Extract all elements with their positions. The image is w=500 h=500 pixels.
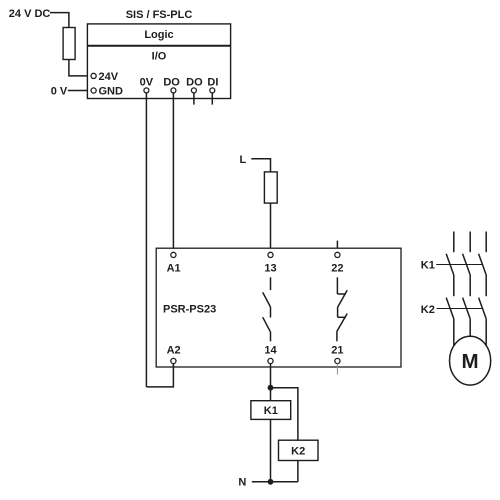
wire mid lead 3 — [485, 275, 487, 296]
svg-text:0V: 0V — [140, 77, 154, 89]
wire stub DI — [211, 93, 213, 105]
contact NC 22-21 lower — [337, 307, 347, 341]
Logic section — [87, 29, 230, 46]
wire phase lead 2 — [469, 232, 471, 253]
contactor K1 pole 1 — [446, 254, 454, 275]
fuse F2 — [264, 172, 277, 203]
wire fuse F1 to terminal 24V — [69, 60, 91, 76]
svg-text:24 V DC: 24 V DC — [9, 8, 51, 20]
wire 14 down to coil K1 — [270, 364, 272, 401]
wire A2 to 0V return — [146, 364, 173, 387]
svg-text:A2: A2 — [167, 345, 181, 357]
svg-text:DO: DO — [186, 77, 203, 89]
contact NO 13-14 upper — [263, 277, 271, 307]
wire 0V down to A2 return — [145, 93, 147, 387]
wire fuse F2 to terminal 13 — [270, 203, 272, 252]
contactor K1 pole 3 — [479, 254, 487, 275]
svg-text:Logic: Logic — [144, 29, 173, 41]
wire 0V to terminal GND — [68, 90, 91, 92]
wire mid lead 1 — [453, 275, 455, 296]
terminal A1 — [167, 252, 181, 274]
wire coil K1 to N — [270, 419, 272, 481]
terminal GND — [91, 85, 123, 97]
wire 24VDC to fuse F1 — [50, 13, 69, 28]
contactor K1 pole 2 — [463, 254, 471, 275]
contact NC 22-21 upper — [337, 277, 347, 307]
svg-text:I/O: I/O — [152, 51, 167, 63]
wire DO1 down to A1 — [172, 93, 174, 252]
wire phase lead 3 — [485, 232, 487, 253]
wire motor lead 3 — [485, 319, 487, 346]
svg-text:K1: K1 — [421, 260, 435, 272]
svg-text:GND: GND — [99, 85, 124, 97]
contactor K2 linkage — [437, 308, 482, 310]
junction dot N rail — [268, 479, 274, 485]
contactor K2 pole 3 — [479, 298, 487, 319]
wire motor lead 2 — [469, 319, 471, 337]
wire coil K2 to N — [297, 461, 299, 482]
svg-text:21: 21 — [331, 345, 343, 357]
terminal 21 — [331, 345, 343, 364]
relay box PSR-PS23 — [156, 248, 401, 367]
wire phase lead 1 — [453, 232, 455, 253]
contactor K1 linkage — [436, 264, 482, 266]
terminal DO 1 — [163, 77, 180, 93]
terminal 13 — [264, 252, 276, 274]
svg-text:DI: DI — [207, 77, 218, 89]
contact NO 13-14 lower — [263, 307, 271, 341]
svg-text:N: N — [238, 477, 246, 489]
contactor K2 pole 2 — [463, 298, 471, 319]
svg-text:K2: K2 — [421, 304, 435, 316]
svg-text:A1: A1 — [167, 263, 181, 275]
terminal 24V — [91, 71, 119, 83]
terminal DI — [207, 77, 218, 93]
wire L to fuse F2 — [251, 159, 270, 172]
svg-text:K1: K1 — [264, 405, 278, 417]
terminal 22 — [331, 252, 343, 274]
svg-text:24V: 24V — [99, 71, 119, 83]
coil K1 — [251, 401, 291, 420]
svg-text:0 V: 0 V — [51, 85, 68, 97]
junction dot 14 branch — [268, 385, 274, 391]
wire stub below terminal 21 — [336, 364, 338, 375]
svg-text:SIS / FS-PLC: SIS / FS-PLC — [126, 9, 193, 21]
terminal 14 — [264, 345, 277, 364]
contactor K2 pole 1 — [446, 298, 454, 319]
PLC box — [87, 24, 230, 99]
terminal A2 — [167, 345, 181, 364]
svg-text:PSR-PS23: PSR-PS23 — [163, 303, 216, 315]
svg-text:K2: K2 — [291, 445, 305, 457]
terminal 0V — [140, 77, 154, 93]
svg-text:22: 22 — [331, 263, 343, 275]
wire mid lead 2 — [469, 275, 471, 296]
wire motor lead 1 — [453, 319, 455, 347]
motor M — [450, 336, 491, 385]
svg-text:13: 13 — [264, 263, 276, 275]
svg-text:L: L — [240, 154, 247, 166]
wire N rail — [252, 481, 298, 483]
wire stub DO 2 — [193, 93, 195, 105]
svg-text:M: M — [462, 350, 479, 373]
svg-text:14: 14 — [264, 345, 277, 357]
coil K2 — [279, 440, 319, 460]
wire stub above terminal 22 — [336, 241, 338, 253]
svg-text:DO: DO — [163, 77, 180, 89]
wire branch to coil K2 — [271, 388, 298, 441]
fuse F1 — [63, 28, 75, 60]
terminal DO 2 — [186, 77, 203, 93]
